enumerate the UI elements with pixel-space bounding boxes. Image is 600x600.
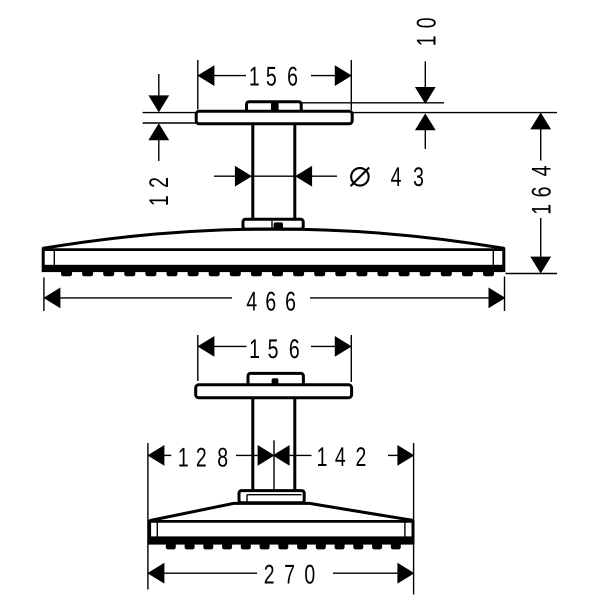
dim 164 bottom arrow [531, 257, 550, 273]
dim 156 view1 left extension line [197, 60, 199, 110]
dim 156 view2 right extension line [350, 335, 352, 382]
svg-text:2: 2 [264, 560, 275, 590]
view2 head left edge [148, 520, 151, 538]
svg-text:6: 6 [289, 334, 300, 364]
view2 head bracket [239, 491, 304, 503]
view1 fitting-top reference line [301, 102, 444, 104]
dim 164 label [526, 204, 556, 215]
view1 ceiling plate [196, 111, 352, 124]
dim 156 view2 label [249, 334, 260, 364]
dim 156 view1 label [249, 62, 260, 92]
dim 12 lower tail [158, 140, 160, 161]
dim 142 line left [290, 454, 312, 456]
dim 466 label [246, 286, 257, 316]
view2 ceiling plate [196, 385, 352, 398]
view2 head shoulder line [150, 520, 413, 523]
view2 fitting knob [272, 378, 279, 384]
dim 128 label [178, 442, 189, 472]
dim 128 center arrow [258, 446, 274, 465]
dim 466 right arrow [489, 288, 505, 307]
view2 connector fitting [248, 373, 303, 385]
view2 column right wall [293, 398, 296, 491]
view2 bracket inner step [247, 494, 302, 496]
dim 12 label [144, 195, 174, 206]
svg-text:2: 2 [144, 177, 174, 188]
svg-text:8: 8 [217, 442, 228, 472]
view1 head right edge [502, 248, 505, 267]
svg-text:0: 0 [412, 17, 442, 28]
view1 column left wall [251, 124, 254, 220]
view1 head right corner line [492, 251, 494, 266]
dim 270 line right [333, 572, 398, 574]
dim 43 line right [312, 175, 337, 177]
view1 bracket divider [271, 221, 273, 228]
dim 12 bottom reference line [143, 122, 197, 124]
svg-text:2: 2 [196, 442, 207, 472]
dim 142 right arrow [398, 446, 414, 465]
svg-text:7: 7 [284, 560, 295, 590]
dim 10 lower arrow [416, 114, 435, 130]
svg-text:6: 6 [265, 286, 276, 316]
svg-text:6: 6 [526, 187, 556, 198]
view2 column left wall [251, 398, 254, 491]
svg-text:1: 1 [317, 442, 328, 472]
svg-text:6: 6 [287, 62, 298, 92]
dim 270 label [264, 560, 275, 590]
dim 142 center arrow [274, 446, 290, 465]
dim 12 upper arrow [149, 96, 168, 112]
dim 164 bottom reference line [506, 273, 558, 275]
dim 270 line left [164, 572, 257, 574]
svg-text:4: 4 [391, 162, 402, 192]
dim 128 left extension line [147, 443, 149, 590]
dim 466 line left [60, 297, 232, 299]
view2 center extension line [273, 440, 275, 490]
dim 156 view2 right arrow [335, 337, 351, 356]
view1 bracket knob [274, 222, 283, 228]
svg-text:1: 1 [526, 204, 556, 215]
view2 head left corner line [156, 523, 158, 538]
dim 156 view2 left arrow [198, 337, 214, 356]
dim 156 view1 right extension line [350, 60, 352, 110]
dim 43 line left [214, 175, 235, 177]
svg-text:1: 1 [249, 62, 260, 92]
dim 128 line left [164, 454, 171, 456]
dim 12 upper tail [158, 74, 160, 96]
dim 43 right arrow [296, 167, 312, 186]
dim 142 label [317, 442, 328, 472]
view1 head bottom band [42, 265, 506, 272]
dim 43 left arrow [235, 167, 251, 186]
svg-text:3: 3 [413, 162, 424, 192]
svg-text:5: 5 [266, 62, 277, 92]
view2 head bottom band [148, 536, 414, 544]
dim 270 right arrow [398, 564, 414, 583]
dim 43 diameter symbol [351, 168, 369, 186]
svg-text:4: 4 [246, 286, 257, 316]
dim 10 label [412, 35, 442, 46]
view2 head dome [150, 503, 413, 520]
view2 head right edge [412, 520, 415, 538]
dim 164 top arrow [531, 113, 550, 128]
view1 column right wall [293, 124, 296, 220]
dim 164 line lower [540, 218, 542, 257]
dim 156 view1 line left [214, 75, 246, 77]
svg-text:4: 4 [526, 166, 556, 177]
dim 466 right extension line [504, 277, 506, 312]
view1 head bracket [243, 219, 303, 229]
dim 156 view1 right arrow [335, 66, 351, 85]
svg-text:2: 2 [355, 442, 366, 472]
svg-text:4: 4 [335, 442, 346, 472]
dim 142 line right [388, 454, 398, 456]
svg-text:6: 6 [285, 286, 296, 316]
view1 head shoulder line [43, 248, 505, 251]
dim 156 view1 left arrow [198, 66, 214, 85]
svg-text:5: 5 [268, 334, 279, 364]
dim 12 top reference line [143, 112, 197, 114]
dim 156 view1 line right [311, 75, 335, 77]
dim 156 view2 left extension line [197, 335, 199, 381]
view1 fitting divider [271, 103, 279, 111]
view2 head right corner line [404, 523, 406, 538]
dim 10 upper tail [424, 61, 426, 87]
dim 142 right extension line [413, 443, 415, 595]
dim 156 view2 line right [311, 345, 335, 347]
view1 head left corner line [53, 251, 55, 266]
svg-text:1: 1 [144, 195, 174, 206]
view1 head dome [43, 229, 505, 248]
dim 466 line right [310, 297, 489, 299]
view2 spray nozzles [166, 544, 175, 549]
dim 10 lower tail [424, 130, 426, 149]
view1 plate-top reference line [352, 112, 557, 114]
dim 164 line upper [540, 129, 542, 161]
dim 466 left arrow [44, 288, 60, 307]
view1 connector fitting [247, 102, 302, 113]
dim 43 label [391, 162, 402, 192]
svg-text:1: 1 [178, 442, 189, 472]
dim 12 lower arrow [149, 124, 168, 140]
dim 128 left arrow [148, 446, 164, 465]
svg-text:1: 1 [249, 334, 260, 364]
dim 156 view2 line left [214, 345, 247, 347]
dim 466 left extension line [43, 278, 45, 312]
svg-text:1: 1 [412, 35, 442, 46]
view1 head left edge [42, 248, 45, 267]
dim 270 left arrow [148, 564, 164, 583]
dim 128 line right [236, 454, 258, 456]
dim 43 cross line [251, 175, 296, 177]
dim 10 upper arrow [416, 88, 435, 104]
view1 spray nozzles [62, 271, 72, 276]
svg-text:0: 0 [304, 560, 315, 590]
